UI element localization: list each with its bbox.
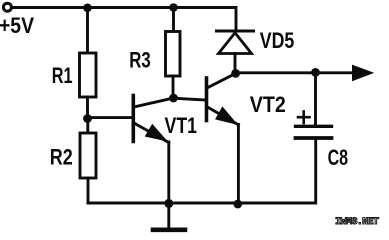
wire R1 bottom to node C	[86, 97, 89, 119]
resistor R3	[166, 32, 181, 77]
wire top rail from terminal to top-right corner then down to diode	[12, 8, 236, 30]
transistor VT2	[207, 74, 239, 125]
wire node B down to R3 top	[172, 8, 175, 32]
wire output rail to arrow	[236, 71, 353, 74]
terminal +5V input	[3, 3, 11, 11]
wire node A down to R1 top	[86, 8, 89, 53]
node C (R1/R2/VT1 base)	[83, 114, 92, 123]
node F (output / C8)	[311, 68, 320, 77]
watermark IWMS.NET	[335, 217, 383, 228]
svg-text:R1: R1	[52, 63, 73, 88]
wire node F down to C8	[314, 72, 317, 125]
node H (VT2 emitter / ground rail)	[233, 200, 242, 209]
wire R3 bottom to node D	[172, 76, 175, 98]
node A (top rail / R1)	[83, 4, 92, 13]
node G (VT1 emitter / ground rail)	[164, 199, 173, 208]
capacitor polarity +	[298, 112, 310, 124]
svg-text:VD5: VD5	[260, 28, 295, 53]
svg-text:+5V: +5V	[0, 13, 34, 38]
capacitor C8	[296, 126, 332, 138]
wire VT2 base from node D	[174, 98, 206, 100]
svg-text:R2: R2	[50, 144, 73, 169]
svg-text:VT1: VT1	[165, 113, 198, 138]
wire node C down to R2 top	[86, 119, 89, 134]
node E (diode / VT2 collector / output)	[231, 69, 240, 78]
resistor R1	[80, 53, 97, 97]
node B (top rail / R3)	[169, 3, 178, 12]
diode VD5	[217, 31, 254, 73]
wire VT1 emitter down to ground rail	[167, 142, 170, 203]
wire R2 bottom to ground rail	[87, 178, 90, 203]
wire VT2 emitter down to ground rail	[237, 125, 240, 204]
output arrow	[352, 65, 374, 82]
resistor R2	[80, 133, 96, 178]
svg-text:R3: R3	[129, 47, 151, 72]
svg-text:C8: C8	[328, 145, 349, 170]
transistor VT1	[133, 96, 173, 143]
node D (R3 / VT1 collector / VT2 base)	[169, 94, 178, 103]
ground	[153, 203, 185, 229]
wire VT1 base from node C	[88, 116, 132, 119]
wire C8 bottom down then ground rail left to R2	[88, 140, 316, 203]
svg-text:VT2: VT2	[250, 92, 286, 117]
